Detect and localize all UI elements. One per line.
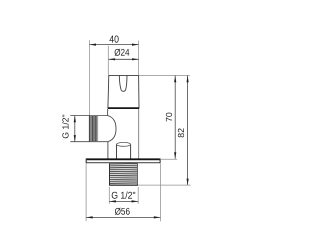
bottom threaded pipe right edge (136, 163, 138, 185)
body lower-left edge (107, 142, 109, 159)
left outlet pipe bottom edge with G1/2 extension tick (70, 141, 108, 143)
dimension G 1/2" (left) arrowheads (74, 116, 76, 142)
dimension Ø56 line (86, 216, 160, 218)
svg-text:Ø24: Ø24 (114, 48, 130, 59)
dimension Ø56 extension line right (159, 164, 161, 222)
valve neck (stem) below body (116, 144, 118, 158)
dimension 40 line (89, 44, 138, 46)
svg-text:82: 82 (176, 128, 186, 138)
base plate bottom line (86, 162, 160, 164)
left outlet pipe top edge with G1/2 extension tick (70, 115, 108, 117)
svg-text:40: 40 (109, 35, 119, 46)
bottom pipe thread area background (110, 163, 137, 184)
dimension 70 line (174, 76, 176, 159)
knob bottom edge (thick dark line) (108, 107, 139, 109)
dimension Ø56 extension line left (85, 164, 87, 222)
extension line right of 40 / Ø24 dims (138, 41, 140, 76)
dimension 70 arrowheads (174, 76, 176, 159)
body/outlet intersection curve (bulge) (108, 116, 116, 142)
dimension 70 bottom extension tick (161, 158, 177, 160)
base plate left edge (85, 159, 87, 164)
dimension Ø24 line (109, 58, 139, 60)
dimension G 1/2" (bottom) extension line right (137, 187, 139, 204)
dimension Ø56 arrowheads (86, 216, 160, 218)
dimension G 1/2" (bottom) arrowheads (109, 200, 138, 202)
dimension G 1/2" (bottom) extension line left (108, 187, 110, 204)
dimension 82 bottom extension tick (138, 184, 191, 186)
base plate (escutcheon) top heavy line (86, 158, 160, 160)
dimension G 1/2" (left) line (74, 116, 76, 142)
svg-text:G 1/2": G 1/2" (111, 191, 136, 202)
dimension 40 arrowheads (90, 44, 139, 46)
extension line left of Ø24 dim (107, 46, 109, 76)
base plate right edge (159, 159, 161, 164)
valve body right edge (138, 109, 140, 159)
left outlet thread hatching (91, 116, 98, 141)
bottom threaded pipe left edge (109, 163, 111, 185)
extension line left of 40 dim (top part, light) (88, 40, 90, 115)
dimension 82 arrowheads (187, 76, 189, 185)
knob slot (U-shaped notch) (119, 76, 127, 92)
valve knob (handle) outline (108, 75, 139, 108)
svg-text:Ø56: Ø56 (115, 207, 130, 218)
valve body left edge (below knob) (107, 109, 109, 116)
valve neck top face (ellipse rim) (117, 142, 131, 146)
dimension 82 line (187, 76, 189, 186)
svg-text:70: 70 (164, 112, 174, 122)
bottom pipe bottom edge (darker) (109, 184, 138, 186)
right extension line from knob top (139, 74, 190, 76)
left outlet thread area background (90, 116, 98, 141)
left outlet pipe end face (88, 116, 90, 142)
dimension G 1/2" (bottom) line (109, 200, 138, 202)
dimension Ø24 arrowheads (109, 58, 139, 60)
bottom pipe thread hatching (110, 163, 137, 183)
svg-text:G 1/2": G 1/2" (61, 114, 71, 138)
